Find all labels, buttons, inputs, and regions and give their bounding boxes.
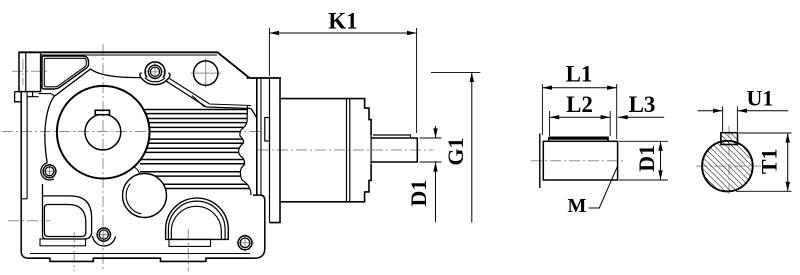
svg-text:M: M xyxy=(568,195,587,217)
svg-text:L1: L1 xyxy=(566,62,593,87)
svg-text:D1: D1 xyxy=(634,145,659,172)
svg-text:G1: G1 xyxy=(443,138,468,166)
svg-text:L3: L3 xyxy=(629,92,656,117)
svg-text:K1: K1 xyxy=(328,9,357,34)
svg-text:U1: U1 xyxy=(747,86,774,111)
svg-text:T1: T1 xyxy=(757,148,782,174)
svg-text:L2: L2 xyxy=(566,92,593,117)
svg-text:D1: D1 xyxy=(406,180,431,207)
